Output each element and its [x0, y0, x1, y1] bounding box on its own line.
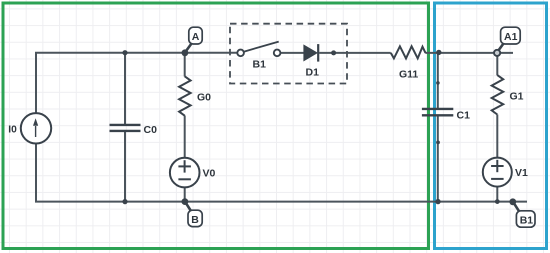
capacitor C1 — [422, 109, 453, 115]
diode D1 — [304, 44, 318, 62]
wire: V1 to bottom rail — [496, 187, 498, 202]
node B — [182, 198, 203, 226]
wire: C0 branch upper — [124, 53, 126, 124]
svg-text:B1: B1 — [253, 58, 267, 70]
wire: I0 top vertical + top rail to switch — [36, 53, 237, 113]
node A — [182, 27, 203, 56]
voltage source V0 — [170, 158, 200, 188]
voltage source V1 — [483, 158, 512, 187]
svg-text:G11: G11 — [399, 69, 418, 81]
junction: C1 wire joint upper — [436, 81, 440, 85]
junction: V1 bottom — [495, 199, 500, 204]
svg-text:C0: C0 — [144, 124, 158, 136]
node A1 — [494, 27, 520, 56]
svg-text:V0: V0 — [203, 168, 216, 180]
resistor G1 — [492, 75, 504, 114]
wire: G0 to V0 — [184, 116, 186, 158]
switch B1 — [237, 42, 280, 57]
wire: C0 branch lower — [124, 131, 126, 202]
junction: C1 wire joint — [436, 141, 440, 145]
wire: C1 branch lower — [437, 116, 439, 202]
dashed selection box — [230, 24, 347, 84]
svg-text:G0: G0 — [197, 92, 211, 104]
svg-text:V1: V1 — [515, 167, 528, 179]
svg-text:A1: A1 — [504, 31, 518, 43]
wire: node A to G0 — [184, 53, 186, 77]
junction: C1 top — [436, 50, 441, 55]
green subcircuit frame — [3, 3, 429, 249]
wire: G11 to node A1 — [425, 52, 513, 54]
junction: C0 top — [122, 50, 127, 55]
resistor G0 — [179, 76, 191, 115]
svg-text:D1: D1 — [306, 67, 320, 79]
node B1 — [509, 198, 535, 227]
wire: G1 to V1 — [496, 115, 498, 158]
svg-text:I0: I0 — [8, 124, 17, 135]
capacitor C0 — [110, 125, 141, 131]
junction: C1 bottom — [435, 199, 440, 204]
wire: C1 branch upper — [437, 53, 439, 109]
junction: C0 bottom — [122, 199, 127, 204]
wire: diode to G11 — [319, 52, 391, 54]
current source I0 — [21, 113, 51, 143]
blue subcircuit frame — [435, 3, 547, 249]
wire: node A1 to G1 — [496, 53, 498, 75]
svg-text:B1: B1 — [520, 214, 534, 226]
svg-text:A: A — [192, 31, 200, 43]
wire: V0 to bottom rail — [184, 187, 186, 201]
wire: switch to diode — [280, 52, 304, 54]
svg-text:B: B — [191, 214, 199, 226]
svg-text:G1: G1 — [510, 91, 524, 103]
svg-text:C1: C1 — [457, 110, 471, 122]
junction: after diode — [331, 50, 336, 55]
wire: I0 bottom vertical + bottom rail — [36, 144, 527, 202]
resistor G11 — [391, 46, 426, 58]
